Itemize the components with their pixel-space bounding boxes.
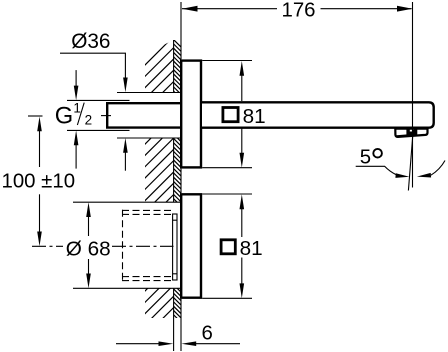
svg-text:G: G (55, 104, 73, 130)
wall hatch main band (110, 0, 230, 352)
box mounting flange (173, 214, 177, 280)
wall finish boundary line (173, 40, 175, 351)
wall hole edge for box (O68) (73, 202, 181, 288)
svg-text:6: 6 (202, 323, 213, 345)
concealed box dashed outline (122, 210, 173, 281)
aerator (395, 128, 427, 137)
label G 1/2 (55, 101, 92, 130)
svg-text:81: 81 (240, 237, 263, 260)
dimension 6 (116, 323, 240, 347)
supply pipe G1/2 (67, 100, 181, 130)
svg-text:2: 2 (85, 113, 93, 128)
label O36 with leader (60, 30, 128, 171)
angle dimension 5deg (356, 147, 445, 178)
dimension 176 (182, 0, 413, 188)
wall surface line (180, 2, 182, 351)
G1/2 dimension arrows (74, 70, 79, 169)
dimension O68 (66, 202, 111, 288)
svg-text:81: 81 (243, 105, 266, 128)
svg-text:1: 1 (73, 101, 81, 116)
box centerline (32, 245, 174, 247)
spout (202, 102, 434, 127)
svg-text:Ø36: Ø36 (71, 30, 110, 53)
dimension 100 +-10 (2, 116, 76, 246)
lower escutcheon plate (181, 194, 201, 297)
lower label sq81 (221, 237, 263, 260)
wall hole edge for spout (O36) (117, 93, 181, 139)
spout angle line 5deg (408, 130, 413, 191)
svg-text:100 ±10: 100 ±10 (2, 171, 76, 193)
lower sq81 dimension (202, 194, 252, 298)
svg-text:5: 5 (360, 147, 371, 169)
svg-text:176: 176 (282, 0, 316, 21)
upper sq81 dimension (202, 61, 252, 168)
svg-text:Ø 68: Ø 68 (66, 238, 111, 261)
upper escutcheon plate (181, 61, 201, 168)
upper label sq81 (223, 105, 266, 128)
